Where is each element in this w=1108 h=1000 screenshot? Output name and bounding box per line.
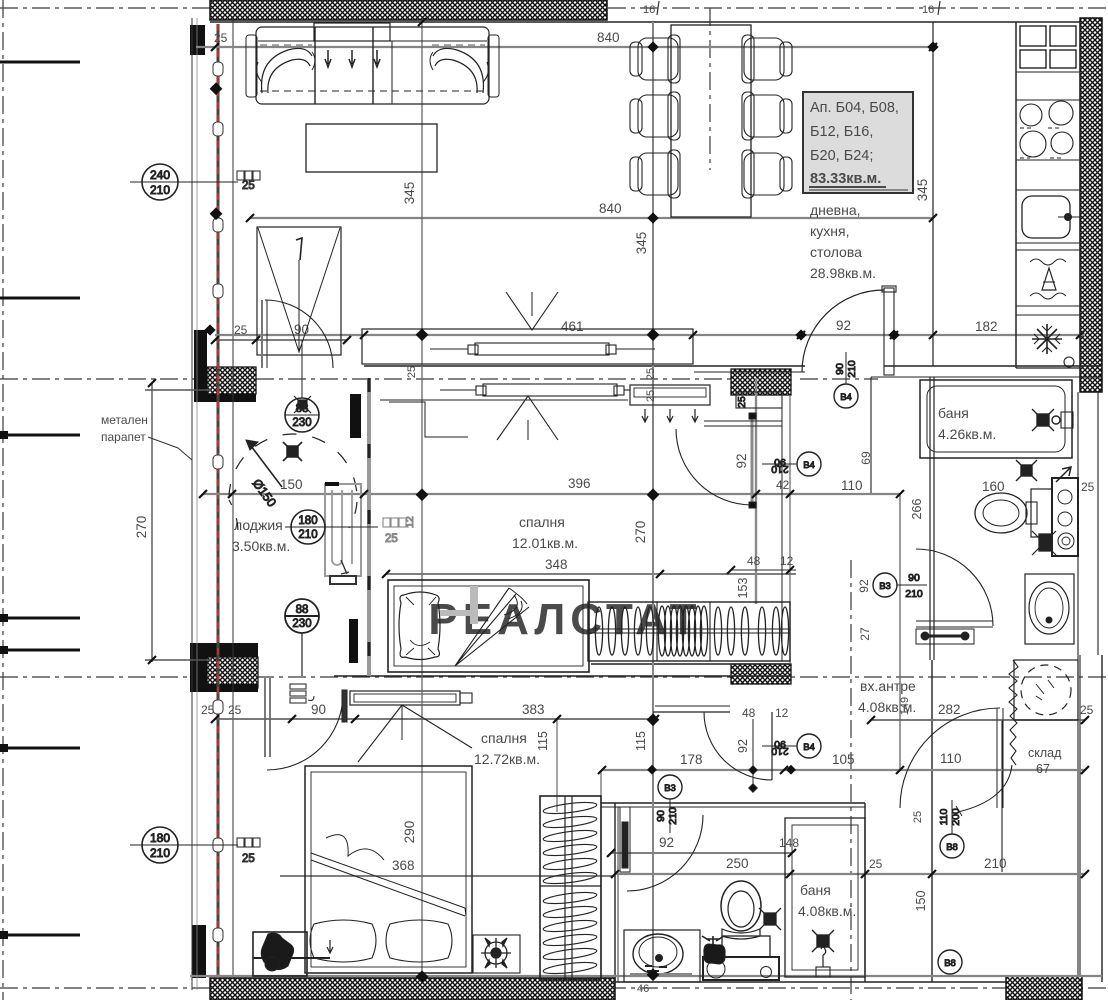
svg-text:210: 210 <box>905 588 923 600</box>
sofa arrows <box>325 50 331 67</box>
loggia glass line gray <box>367 378 371 676</box>
wall bath2 outline <box>601 802 865 804</box>
svg-text:25: 25 <box>385 533 398 545</box>
circle label B3 bath1 <box>873 572 927 600</box>
svg-text:16: 16 <box>643 4 655 16</box>
svg-text:266: 266 <box>910 499 924 520</box>
svg-text:В4: В4 <box>803 742 815 753</box>
circle label B8 bottom <box>938 950 962 974</box>
svg-text:42: 42 <box>776 478 790 492</box>
svg-text:92: 92 <box>659 835 674 850</box>
left wall tick marks <box>0 61 80 64</box>
svg-text:110: 110 <box>841 478 863 493</box>
axis line bottom horizontal <box>0 987 1108 989</box>
dim line 282 <box>871 719 1085 721</box>
kitchen sink <box>1022 196 1070 238</box>
loggia diameter pointer <box>248 442 282 487</box>
svg-text:150: 150 <box>280 477 303 492</box>
window open V mark lower <box>497 396 558 440</box>
svg-text:25: 25 <box>1081 480 1095 494</box>
long vertical line livingroom <box>421 22 423 978</box>
svg-text:48: 48 <box>742 706 756 720</box>
towel rack ladder <box>540 796 601 980</box>
svg-text:396: 396 <box>568 476 591 491</box>
bedside chair black <box>261 933 293 970</box>
svg-text:92: 92 <box>857 579 871 593</box>
svg-text:В8: В8 <box>946 842 958 853</box>
dim line 92/148 <box>611 852 792 854</box>
sofa left chaise cushions <box>262 48 312 93</box>
sofa right chaise cushions <box>433 48 483 93</box>
wall bottom-left black segment <box>192 925 206 978</box>
axis line mid horizontal <box>0 378 790 380</box>
svg-text:110: 110 <box>940 751 962 766</box>
svg-text:90: 90 <box>311 702 326 717</box>
bed single <box>388 580 589 672</box>
svg-text:461: 461 <box>561 319 584 334</box>
dim line 270 vertical <box>145 383 212 662</box>
svg-text:90: 90 <box>908 572 920 584</box>
svg-text:25: 25 <box>228 703 242 717</box>
circle label B3 bath2 <box>655 775 682 833</box>
svg-text:180: 180 <box>298 515 317 527</box>
washbasin unit right <box>1052 478 1078 556</box>
circle label B4 hall <box>762 452 821 476</box>
balcony connector symbols <box>213 62 223 942</box>
bedside desk <box>253 932 307 976</box>
svg-text:25: 25 <box>912 811 924 823</box>
svg-text:Б12, Б16,: Б12, Б16, <box>810 124 873 140</box>
door storage <box>900 708 1000 808</box>
svg-text:25: 25 <box>201 703 215 717</box>
shoe cabinet symbol bottom <box>237 838 260 865</box>
svg-text:178: 178 <box>680 752 703 767</box>
washstand cart <box>703 957 779 980</box>
washing machine <box>1014 660 1078 720</box>
dim line 25/90 left <box>215 339 347 341</box>
door closet bottom-left <box>267 694 343 770</box>
svg-text:92: 92 <box>736 739 750 753</box>
svg-text:240: 240 <box>150 168 170 182</box>
dim line 250/25/210 <box>615 873 1085 875</box>
dim line 840 top <box>196 46 933 48</box>
dim line 461/92/182 <box>215 334 1085 336</box>
dining chairs left <box>630 35 680 198</box>
svg-text:210: 210 <box>298 529 317 541</box>
sink 1 <box>1025 574 1074 644</box>
svg-text:25: 25 <box>406 366 418 378</box>
svg-text:200: 200 <box>950 808 962 826</box>
svg-text:368: 368 <box>392 858 415 873</box>
svg-text:12.72кв.м.: 12.72кв.м. <box>474 751 540 767</box>
wall hatch block hall top <box>731 369 791 395</box>
svg-text:105: 105 <box>832 752 855 767</box>
svg-text:25: 25 <box>242 853 255 865</box>
dining table <box>671 25 751 217</box>
axis line entrance vertical <box>850 560 852 1000</box>
bed pillows <box>310 920 376 962</box>
balcony glazing red dashed line <box>217 24 219 978</box>
wall corner closet black left <box>190 657 207 688</box>
svg-text:210: 210 <box>150 846 170 860</box>
axis line lower horizontal <box>0 676 1108 678</box>
svg-text:345: 345 <box>915 179 930 202</box>
svg-text:840: 840 <box>599 201 622 216</box>
wall corner closet black band <box>190 643 258 657</box>
vertical line hall right <box>899 494 901 770</box>
radiator loggia <box>325 484 361 584</box>
kitchen dishwasher symbol <box>1042 268 1056 290</box>
svg-text:12: 12 <box>775 706 789 720</box>
loggia wall stub black <box>350 394 361 438</box>
vertical line kitchen left <box>1015 22 1017 368</box>
window slider panel B <box>380 384 630 437</box>
dim line 368 <box>280 875 615 877</box>
svg-text:182: 182 <box>975 319 998 334</box>
wall closet side double <box>264 678 266 757</box>
svg-text:25: 25 <box>214 31 228 45</box>
door frame shelf bedroom1 <box>736 392 782 408</box>
faucet symbol <box>1032 531 1056 555</box>
railing leader line <box>148 437 192 460</box>
blanket diagonal <box>311 853 466 916</box>
svg-text:210: 210 <box>846 360 858 378</box>
circle label B8 storage <box>938 800 964 858</box>
sofa <box>246 23 499 104</box>
wall niche edge vertical <box>870 377 872 494</box>
wall right hatched <box>1080 18 1102 392</box>
svg-text:270: 270 <box>633 521 648 544</box>
svg-text:метален: метален <box>101 413 148 427</box>
svg-text:В4: В4 <box>803 460 815 471</box>
svg-text:склад: склад <box>1028 746 1062 760</box>
wall bath2 floor <box>615 981 1006 983</box>
circle label 180/210 left-bottom <box>130 827 238 863</box>
svg-text:25: 25 <box>869 857 883 871</box>
shoe cabinet symbol top <box>237 171 260 192</box>
long vertical line dining <box>652 22 654 980</box>
dim line 383 <box>215 718 655 720</box>
vertical line bedroom2 right <box>556 719 558 812</box>
svg-text:383: 383 <box>522 702 545 717</box>
axis line left vertical <box>2 0 4 1000</box>
svg-text:348: 348 <box>545 557 568 572</box>
shaft wall lines right <box>1077 392 1079 976</box>
door bedroom1 main arc <box>676 429 752 505</box>
svg-text:3.50кв.м.: 3.50кв.м. <box>232 538 290 554</box>
svg-text:баня: баня <box>938 405 969 421</box>
svg-text:210: 210 <box>984 856 1007 871</box>
svg-text:парапет: парапет <box>101 430 146 444</box>
rail above bed2 <box>350 691 460 705</box>
dining chairs right <box>742 35 792 198</box>
svg-text:25: 25 <box>736 396 748 408</box>
candle symbol <box>821 947 826 967</box>
circle label B4 kitchen door <box>834 352 858 408</box>
svg-text:25: 25 <box>242 180 255 192</box>
circle label B4 corridor <box>762 734 821 758</box>
svg-text:180: 180 <box>150 831 170 845</box>
svg-text:115: 115 <box>536 731 550 751</box>
svg-text:90: 90 <box>655 810 667 822</box>
loggia dashed circle <box>229 434 357 498</box>
kitchen unit dividers <box>1016 71 1080 73</box>
svg-text:115: 115 <box>634 731 648 751</box>
svg-text:150: 150 <box>914 891 928 912</box>
storage curtain zigzag <box>1009 660 1018 765</box>
svg-text:83.33кв.м.: 83.33кв.м. <box>810 171 881 187</box>
circle label 240/210 <box>130 164 238 200</box>
hanger loops <box>595 606 788 656</box>
svg-text:345: 345 <box>634 232 649 255</box>
circle label 88/230 <box>285 340 319 432</box>
dim line 48/12 <box>731 569 796 571</box>
wall kitchen divider vertical <box>932 22 934 366</box>
door main entrance arc <box>802 290 884 372</box>
dim line 840 second <box>250 217 933 219</box>
svg-text:90: 90 <box>834 363 846 375</box>
circle label 88/230 lower <box>285 599 319 676</box>
wall storage left <box>1001 720 1003 872</box>
svg-text:230: 230 <box>292 618 311 630</box>
wall bedroom1 south <box>334 675 791 677</box>
svg-text:345: 345 <box>402 182 417 205</box>
svg-text:дневна,: дневна, <box>810 202 861 218</box>
wall line over bedroom window <box>364 365 805 367</box>
svg-text:210: 210 <box>771 745 789 757</box>
svg-text:48: 48 <box>747 554 761 568</box>
svg-text:210: 210 <box>771 463 789 475</box>
svg-text:25: 25 <box>234 323 248 337</box>
balcony glazing dark line <box>217 24 220 978</box>
svg-text:46: 46 <box>637 983 649 995</box>
svg-text:В8: В8 <box>944 958 956 969</box>
window open V mark upper <box>506 292 558 330</box>
svg-text:кухня,: кухня, <box>810 223 849 239</box>
svg-text:153: 153 <box>736 578 750 599</box>
bed divider gray <box>440 610 474 616</box>
apartment label box <box>803 92 913 193</box>
bed double <box>305 766 472 973</box>
bed direction mark <box>358 705 472 762</box>
svg-text:270: 270 <box>134 516 149 539</box>
wall corner closet hatch <box>207 657 258 688</box>
shoe cabinet symbol loggia <box>383 516 416 545</box>
door bath1 <box>916 549 993 626</box>
svg-text:25: 25 <box>645 390 657 402</box>
svg-text:290: 290 <box>402 821 417 844</box>
wall black bar left of loggia hatch <box>194 330 207 402</box>
svg-text:спалня: спалня <box>481 730 527 746</box>
svg-text:148: 148 <box>779 836 799 850</box>
svg-text:В4: В4 <box>840 392 852 403</box>
wall corridor right vertical <box>931 660 933 982</box>
svg-text:92: 92 <box>734 453 749 468</box>
wall corner closet black band bottom <box>190 684 258 692</box>
bathtub drain symbol <box>1032 409 1073 431</box>
axis line top horizontal <box>0 7 1108 9</box>
vertical line bath2 left outer <box>600 770 602 980</box>
svg-text:В3: В3 <box>879 581 891 592</box>
svg-text:4.26кв.м.: 4.26кв.м. <box>938 426 996 442</box>
wall hatch block loggia <box>207 367 256 394</box>
dim line 178/105/110 <box>602 769 1085 771</box>
toilet vent <box>759 908 781 930</box>
svg-text:28.98кв.м.: 28.98кв.м. <box>810 265 876 281</box>
pillow <box>399 592 440 660</box>
corridor south wall <box>653 711 730 713</box>
wall hatch block hall lower <box>731 664 791 684</box>
balcony inner line <box>232 18 234 978</box>
kitchen counter outline <box>1015 22 1017 368</box>
loggia glass dark dashes <box>368 378 371 676</box>
wall top hatched <box>210 0 607 20</box>
coffee table <box>306 124 437 172</box>
blanket cone <box>455 588 529 666</box>
bathtub <box>920 380 1072 458</box>
sofa center back rect <box>314 23 390 41</box>
svg-text:88: 88 <box>296 604 309 616</box>
svg-text:110: 110 <box>938 808 950 825</box>
svg-text:250: 250 <box>726 856 749 871</box>
kitchen stove burners <box>1020 104 1042 126</box>
svg-text:25: 25 <box>1080 703 1094 717</box>
wall wardrobe bottom <box>591 663 791 665</box>
window slider panel A <box>430 343 655 355</box>
bedroom1 door jamb gray <box>755 378 757 604</box>
svg-text:Б20, Б24;: Б20, Б24; <box>810 148 873 164</box>
wall storage right <box>1079 655 1081 976</box>
svg-text:4.08кв.м.: 4.08кв.м. <box>798 903 856 919</box>
dim line 150/396/110 <box>203 493 900 495</box>
svg-text:лоджия: лоджия <box>234 517 283 533</box>
dim ticks (45 deg) on key junctions <box>211 43 937 51</box>
svg-text:Ап. Б04, Б08,: Ап. Б04, Б08, <box>810 100 899 116</box>
svg-text:282: 282 <box>938 702 961 717</box>
floor lamp symbol <box>473 935 520 973</box>
dim line bottom floor gray <box>190 975 1102 977</box>
axis line dining vertical <box>709 8 711 170</box>
svg-text:В3: В3 <box>664 783 676 794</box>
svg-text:69: 69 <box>859 451 873 465</box>
dim line 348 <box>386 573 796 575</box>
toilet 1 <box>975 493 1027 533</box>
wall line bath top <box>871 376 1102 378</box>
svg-text:16: 16 <box>922 4 934 16</box>
wall black band under loggia hatch <box>194 394 256 402</box>
hall left line <box>789 395 791 664</box>
kitchen fan snowflake <box>1032 324 1062 354</box>
ventilation box with arrows <box>630 385 710 405</box>
wardrobe tall with V <box>257 227 341 355</box>
wall stub black lower loggia <box>349 619 358 663</box>
svg-text:92: 92 <box>836 318 851 333</box>
wall bottom-left hatched <box>210 978 615 1000</box>
circle label 180/210 loggia <box>285 510 378 544</box>
svg-text:840: 840 <box>597 30 620 45</box>
wall black bar top-left corner <box>190 25 205 55</box>
wall top inner line <box>210 21 1102 23</box>
wall right lower line <box>1101 655 1103 982</box>
wall bath1 left double <box>929 377 931 660</box>
svg-text:вх.антре: вх.антре <box>860 678 916 694</box>
svg-text:27: 27 <box>858 627 872 641</box>
wall bottom-right hatched <box>1006 976 1082 1000</box>
svg-text:баня: баня <box>800 882 831 898</box>
kitchen upper cabinet squares <box>1020 26 1046 46</box>
balcony outer line <box>191 18 193 990</box>
svg-text:4.08кв.м.: 4.08кв.м. <box>858 699 916 715</box>
svg-text:67: 67 <box>1036 762 1050 776</box>
door bedroom1 left <box>265 300 333 368</box>
toilet 2 <box>721 881 761 931</box>
towel bar <box>925 635 968 638</box>
window slider frame living-bedroom <box>362 329 693 364</box>
svg-text:230: 230 <box>292 417 311 429</box>
door corridor to bedroom2 <box>704 712 772 780</box>
svg-text:210: 210 <box>667 807 679 825</box>
svg-text:спалня: спалня <box>519 514 565 530</box>
bath1 vent X <box>1016 460 1037 481</box>
junction markers <box>210 82 223 95</box>
svg-text:160: 160 <box>982 479 1005 494</box>
radiator symbol small bedroom2 wall <box>290 684 314 703</box>
svg-text:12.01кв.м.: 12.01кв.м. <box>512 535 578 551</box>
sink 2 <box>624 930 700 982</box>
svg-text:25: 25 <box>645 368 657 380</box>
svg-text:210: 210 <box>150 183 170 197</box>
svg-text:12: 12 <box>404 516 416 528</box>
faucet column <box>704 944 725 964</box>
svg-text:столова: столова <box>810 244 862 260</box>
loggia vent X symbol <box>283 442 302 461</box>
wardrobe with hangers <box>588 602 790 661</box>
toilet tank <box>722 936 770 957</box>
shower vent X <box>812 930 834 952</box>
shower cabin bath2 <box>785 818 865 977</box>
door bath2 <box>627 815 703 891</box>
